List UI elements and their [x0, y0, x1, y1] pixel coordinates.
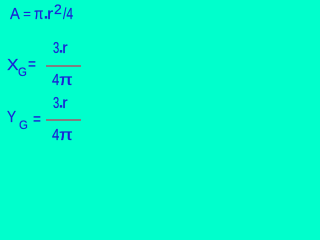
- letter r (formula 1): [47, 7, 52, 23]
- formula X_G : letter X: [7, 58, 18, 74]
- numerator r (formula 2): [62, 41, 67, 57]
- slash and denominator 4 (formula 1): [63, 7, 76, 23]
- numerator dot (formula 2): [58, 41, 62, 57]
- fraction bar (formula 3): [46, 119, 81, 121]
- denominator pi (formula 2): [59, 73, 70, 89]
- fraction bar (formula 2): [46, 65, 81, 67]
- superscript exponent 2: [54, 2, 62, 16]
- formula A = pi.r^2/4 : letter A: [10, 7, 21, 23]
- numerator r (formula 3): [62, 96, 67, 112]
- equals sign 1: [23, 7, 31, 20]
- denominator digit 4 (formula 2): [52, 73, 61, 89]
- equals sign 3: [33, 112, 42, 128]
- formula Y_G : letter Y: [7, 110, 18, 126]
- equals sign 2: [28, 57, 37, 73]
- numerator digit 3 (formula 2): [53, 41, 62, 57]
- dot after pi: [43, 7, 47, 23]
- subscript G (formula 2): [18, 66, 27, 78]
- pi (formula 1): [34, 7, 45, 23]
- denominator digit 4 (formula 3): [52, 128, 61, 144]
- subscript G (formula 3): [19, 119, 28, 131]
- numerator dot (formula 3): [58, 96, 62, 112]
- numerator digit 3 (formula 3): [53, 96, 62, 112]
- denominator pi (formula 3): [59, 128, 70, 144]
